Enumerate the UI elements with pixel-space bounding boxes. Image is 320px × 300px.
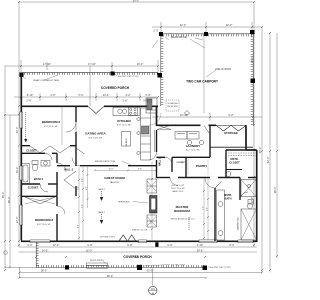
svg-text:8'-0" CLG. HT.: 8'-0" CLG. HT. (44, 126, 58, 128)
svg-text:4'-0": 4'-0" (86, 186, 88, 190)
svg-text:CLOSET: CLOSET (229, 161, 240, 165)
svg-text:TWO CAR CARPORT: TWO CAR CARPORT (186, 80, 218, 84)
svg-text:10'-0": 10'-0" (108, 169, 113, 171)
svg-text:GARDEN TUB: GARDEN TUB (237, 217, 240, 231)
svg-text:10'-0" CLG. HT.: 10'-0" CLG. HT. (171, 188, 185, 190)
svg-text:4'-0": 4'-0" (50, 93, 55, 97)
svg-text:SMOKE DETECTOR: SMOKE DETECTOR (95, 161, 116, 163)
svg-text:MSTR.: MSTR. (224, 193, 232, 197)
svg-text:50 GAL WH: 50 GAL WH (167, 102, 178, 105)
svg-text:32'-0": 32'-0" (147, 269, 154, 273)
svg-text:COVERED PORCH: COVERED PORCH (123, 255, 152, 259)
svg-text:GREAT ROOM: GREAT ROOM (104, 176, 125, 180)
svg-text:BATH 2: BATH 2 (34, 177, 44, 181)
svg-text:50'-0": 50'-0" (133, 0, 140, 3)
svg-text:BEDROOM 2: BEDROOM 2 (42, 120, 61, 124)
svg-text:MSTR.: MSTR. (230, 157, 238, 161)
svg-text:24'-6": 24'-6" (42, 248, 49, 252)
svg-text:17'-10": 17'-10" (43, 62, 51, 66)
svg-text:CLOSET: CLOSET (26, 149, 37, 153)
svg-text:5'-6": 5'-6" (77, 186, 79, 190)
svg-text:VAULT: VAULT (98, 188, 105, 191)
svg-text:50'-2": 50'-2" (258, 147, 262, 154)
svg-text:KITCHEN: KITCHEN (117, 119, 130, 123)
svg-text:6'-0": 6'-0" (27, 243, 32, 247)
svg-text:8'-0" CLG. HT.: 8'-0" CLG. HT. (37, 224, 51, 226)
svg-text:2'-8": 2'-8" (26, 99, 31, 103)
svg-text:FIREPLACE: FIREPLACE (118, 201, 130, 204)
svg-text:6'-8": 6'-8" (87, 243, 92, 247)
svg-text:BATH: BATH (224, 197, 231, 201)
svg-text:8'-0": 8'-0" (229, 243, 234, 247)
svg-text:5'-2": 5'-2" (228, 113, 233, 117)
svg-text:WOOD STEPS: WOOD STEPS (90, 260, 104, 262)
svg-text:DOORS (TYP.): DOORS (TYP.) (100, 236, 115, 238)
svg-text:BEDROOM: BEDROOM (174, 209, 190, 213)
svg-text:8'-0" CLG. HT.: 8'-0" CLG. HT. (172, 185, 185, 187)
svg-text:8'-4": 8'-4" (77, 224, 79, 228)
svg-text:6'-8": 6'-8" (138, 169, 142, 171)
svg-text:10'-0": 10'-0" (137, 62, 144, 66)
svg-text:6'-8": 6'-8" (127, 243, 132, 247)
svg-text:13'-4": 13'-4" (103, 93, 110, 97)
svg-text:16'-0": 16'-0" (86, 248, 93, 252)
svg-text:4x4 TRT. PST. (TYP.): 4x4 TRT. PST. (TYP.) (210, 267, 231, 269)
svg-text:3'-0": 3'-0" (81, 178, 83, 182)
svg-text:5'-0": 5'-0" (145, 93, 150, 97)
svg-text:CLOSET: CLOSET (28, 186, 39, 190)
svg-text:VAULT: VAULT (98, 211, 105, 214)
svg-text:28'-0": 28'-0" (273, 187, 277, 194)
svg-text:3'-6": 3'-6" (150, 220, 152, 224)
svg-text:7'-0": 7'-0" (202, 206, 204, 210)
svg-text:BEDROOM 3: BEDROOM 3 (35, 218, 54, 222)
svg-text:4'-10": 4'-10" (197, 243, 204, 247)
svg-text:26'-0": 26'-0" (250, 57, 254, 64)
svg-text:VAULT CLG.: VAULT CLG. (172, 190, 184, 193)
svg-text:CLOSET: CLOSET (176, 162, 185, 164)
svg-text:48'-0": 48'-0" (107, 274, 114, 278)
svg-text:401: 401 (151, 288, 156, 291)
svg-text:13'-0": 13'-0" (15, 127, 19, 134)
svg-text:WRAP COLUMN W/ TRIM: WRAP COLUMN W/ TRIM (33, 79, 59, 82)
svg-text:VAULTED: VAULTED (110, 181, 120, 184)
svg-text:3'-6": 3'-6" (122, 99, 127, 103)
svg-text:10'-0": 10'-0" (15, 167, 19, 174)
svg-text:LINE OF ROOF: LINE OF ROOF (215, 69, 232, 71)
svg-text:6'-2": 6'-2" (81, 204, 83, 208)
svg-text:46'-0": 46'-0" (1, 192, 5, 199)
svg-text:6068 SL. GL. DR.: 6068 SL. GL. DR. (132, 230, 148, 232)
svg-text:2'-0": 2'-0" (153, 29, 158, 33)
svg-text:HALL 2: HALL 2 (64, 168, 74, 172)
svg-text:8'-0" CLG. HT.: 8'-0" CLG. HT. (117, 125, 131, 127)
svg-text:8'-0" CLG. HT.: 8'-0" CLG. HT. (89, 138, 103, 140)
svg-text:EATING AREA: EATING AREA (85, 132, 106, 136)
svg-text:6x6 TRT. POST: 6x6 TRT. POST (171, 264, 186, 266)
svg-text:(BEAM ABOVE): (BEAM ABOVE) (171, 36, 188, 39)
svg-text:28'-0": 28'-0" (41, 269, 48, 273)
svg-text:LAUNDRY: LAUNDRY (186, 144, 201, 148)
svg-text:62'-0": 62'-0" (266, 157, 270, 164)
svg-text:6'-0": 6'-0" (167, 243, 172, 247)
svg-text:COVERED PORCH: COVERED PORCH (101, 86, 130, 90)
svg-text:WOOD STUDS @ 16" O.C.: WOOD STUDS @ 16" O.C. (171, 219, 196, 221)
svg-text:12'-0": 12'-0" (53, 243, 60, 247)
svg-text:4'-6": 4'-6" (206, 207, 208, 211)
svg-text:HALL 1: HALL 1 (159, 157, 162, 166)
svg-text:5'-0": 5'-0" (78, 93, 83, 97)
svg-text:4x4 TRT. PST. (TYP.): 4x4 TRT. PST. (TYP.) (118, 76, 139, 78)
svg-text:PANTRY: PANTRY (196, 164, 207, 168)
svg-text:ON 18" STD: ON 18" STD (167, 106, 178, 108)
svg-text:36'-0": 36'-0" (7, 197, 11, 204)
svg-text:22'-0": 22'-0" (180, 23, 187, 27)
svg-text:ISLAND: ISLAND (125, 138, 128, 146)
svg-text:17'-10": 17'-10" (88, 62, 96, 66)
svg-text:24'-6": 24'-6" (197, 248, 204, 252)
svg-text:STORAGE: STORAGE (224, 131, 238, 135)
svg-text:3'-2": 3'-2" (125, 93, 130, 97)
svg-text:8'-0" CLG. HT.: 8'-0" CLG. HT. (186, 150, 200, 152)
svg-text:8'-10": 8'-10" (27, 93, 34, 97)
svg-text:12'-0": 12'-0" (15, 217, 19, 224)
svg-text:22'-0": 22'-0" (226, 23, 233, 27)
